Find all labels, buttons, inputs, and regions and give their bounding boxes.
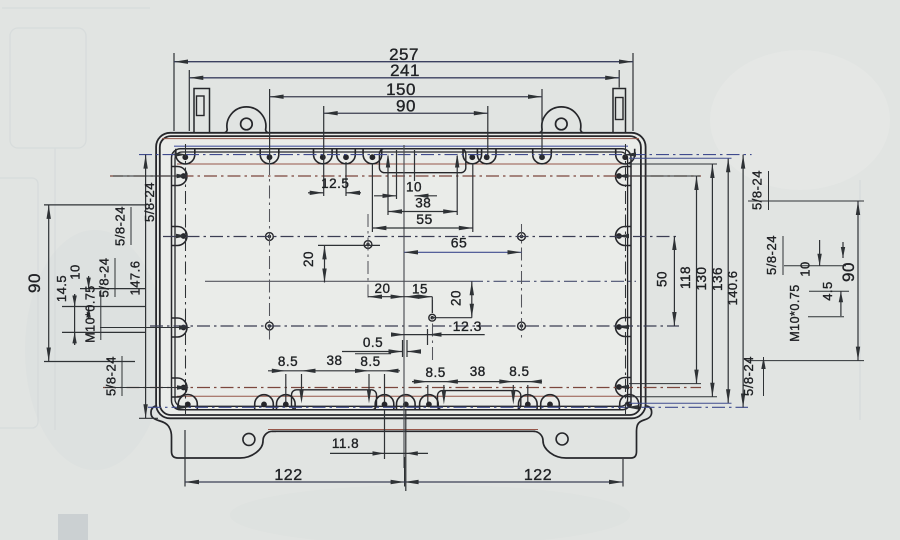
top row boss x486.7 [477, 149, 496, 164]
centerline row y176 [110, 175, 701, 177]
thread label 5/8-24 left 2 [130, 207, 132, 245]
red recess line bottom [177, 395, 626, 397]
scan ghost artifacts left margin [0, 8, 860, 430]
ear 1 hole [241, 118, 253, 130]
centerline column left bosses [185, 144, 187, 414]
dimension 4.5 right [842, 242, 844, 258]
dimension 90 right [857, 201, 859, 361]
svg-text:241: 241 [390, 61, 420, 80]
dimension 147.6 [145, 155, 147, 419]
svg-text:12.3: 12.3 [453, 318, 482, 334]
right wall boss y387 [616, 378, 632, 397]
dimension 65 [404, 251, 522, 253]
bottom right pad [438, 391, 521, 410]
dimension 12.5 [345, 162, 347, 196]
top row boss corner TR [616, 149, 635, 164]
interior hole (269.4,326) [266, 322, 274, 330]
interior hole (269.4,236.5) [266, 233, 274, 241]
interior hole (521.5,326) [518, 322, 526, 330]
bottom row boss x264 [255, 395, 274, 410]
left foot hole [243, 433, 255, 445]
paper mottling [25, 230, 165, 470]
svg-text:15: 15 [412, 282, 428, 297]
top row boss x269.5 [260, 149, 279, 164]
thread label 5/8-24 left 3 [114, 258, 116, 297]
svg-text:4.5: 4.5 [820, 281, 835, 301]
dimension 50 right [673, 236, 675, 326]
dimension 122 right [405, 481, 623, 483]
dimension 14.5 [74, 294, 76, 345]
bottom row boss x384.5 [375, 395, 394, 410]
svg-text:12.5: 12.5 [321, 176, 349, 191]
leader arrow right boss y387 [617, 385, 629, 389]
interior hole (521.5,236.5) [518, 233, 526, 241]
left mounting foot [151, 406, 276, 458]
column through hole x269.5 [269, 162, 271, 340]
svg-text:20: 20 [449, 290, 464, 306]
svg-text:147.6: 147.6 [128, 260, 143, 295]
svg-text:5/8-24: 5/8-24 [750, 170, 765, 210]
right wall boss y327 [616, 318, 632, 337]
center axis column [403, 145, 405, 468]
right wall boss y236 [616, 227, 632, 246]
svg-text:118: 118 [678, 266, 693, 289]
bottom row boss x285.8 [277, 395, 296, 410]
svg-text:5/8-24: 5/8-24 [764, 235, 779, 275]
ear 2 hole [556, 118, 568, 130]
top row boss x472.3 [463, 149, 482, 164]
left wall boss y387.5 [172, 378, 188, 397]
dimension 118 right [696, 176, 698, 384]
top center pad [379, 149, 465, 173]
interior hole (368,244.5) [364, 241, 372, 249]
leader arrow corner TR [624, 152, 636, 156]
bottom row boss x405.8 [397, 395, 416, 410]
svg-text:M10*0.75: M10*0.75 [788, 284, 802, 342]
thread label 5/8-24 right 1 [768, 171, 770, 210]
dimension 11.8 [384, 410, 386, 459]
dimension 257 [173, 53, 175, 131]
svg-text:10: 10 [406, 180, 422, 195]
enclosure body fill [156, 133, 645, 419]
top right tab [613, 89, 626, 133]
dimension 12.3 [427, 329, 429, 345]
column through hole x432.5 [432, 300, 434, 360]
dimension 20-15 chain [368, 296, 432, 298]
red fringe line below top outer edge [162, 138, 639, 140]
svg-text:122: 122 [274, 467, 302, 484]
svg-text:8.5: 8.5 [360, 354, 380, 369]
svg-text:8.5: 8.5 [425, 365, 445, 380]
centerline row y281 [205, 280, 470, 282]
centerline row y326 [150, 325, 679, 327]
bottom row boss x428.9 [420, 395, 439, 410]
dimension 55 [371, 163, 373, 232]
centerline row y387.5 [103, 387, 701, 389]
left wall boss y327.5 [172, 318, 188, 337]
right wall boss y176 [616, 167, 632, 186]
svg-text:0.5: 0.5 [363, 335, 383, 350]
bottom edge between feet [272, 430, 535, 432]
centerline column right bosses [625, 144, 627, 414]
centerline row y236 [163, 236, 679, 238]
leader arrow left boss y236 [176, 234, 188, 238]
right mounting foot [534, 406, 652, 458]
red recess line top [177, 163, 626, 165]
dimension 130 right [711, 164, 713, 397]
centerline row y407.3 [148, 406, 748, 408]
thread label M10x0.75 right [808, 316, 844, 318]
svg-text:11.8: 11.8 [332, 436, 359, 451]
thread label M10x0.75 left [100, 290, 102, 340]
top row boss x346 [337, 149, 356, 164]
thread label 5/8-24 left 4 [121, 356, 123, 396]
dimension 150 [269, 89, 271, 162]
enclosure outer contour line 2 [160, 136, 641, 415]
svg-text:38: 38 [415, 196, 431, 211]
enclosure outer contour line 1 [156, 133, 645, 419]
dimension 20 vertical b [471, 281, 473, 317]
top row boss x322.8 [314, 149, 333, 164]
svg-text:10: 10 [798, 261, 813, 276]
thread label 5/8-24 right 3 [763, 357, 765, 396]
svg-text:38: 38 [326, 353, 342, 368]
dimension 241 [188, 70, 190, 131]
svg-text:136: 136 [710, 267, 725, 291]
dimension 140.6 right [742, 155, 744, 408]
inner wall outer line [172, 149, 632, 410]
svg-text:38: 38 [470, 364, 486, 379]
dimension 136 right [727, 158, 729, 403]
dimension 0.5 [342, 351, 403, 353]
svg-text:8.5: 8.5 [509, 364, 529, 379]
svg-text:5/8-24: 5/8-24 [142, 182, 157, 222]
svg-text:20: 20 [301, 251, 316, 267]
top right tab slot [616, 98, 624, 120]
dimension 10 right [819, 240, 821, 266]
dimension chain 8.5-38-8.5 right [412, 381, 542, 383]
right foot hole [556, 433, 568, 445]
dimension chain 8.5-38-8.5 left [268, 370, 400, 372]
leader arrow corner BR [626, 405, 638, 409]
top row boss x542 [533, 149, 552, 164]
interior hole (432.2,317.7) [429, 314, 436, 321]
bottom row boss x527.8 [519, 395, 538, 410]
left wall boss y236 [172, 227, 188, 246]
svg-text:M10*0.75: M10*0.75 [84, 285, 98, 343]
top left tab slot [197, 96, 205, 116]
inner wall inner line [175, 152, 628, 406]
dimension 90 top [323, 106, 325, 196]
bottom row boss corner BR [620, 395, 639, 410]
svg-text:20: 20 [374, 281, 390, 296]
dimension 20 vertical a [324, 245, 326, 282]
svg-text:55: 55 [416, 211, 433, 227]
svg-text:50: 50 [655, 271, 670, 287]
left wall boss y176 [172, 167, 188, 186]
svg-text:10: 10 [68, 264, 83, 279]
bottom row boss corner BL [178, 395, 197, 410]
column through hole x368 [367, 214, 369, 300]
thread label 5/8-24 right 2 [782, 236, 784, 275]
svg-text:90: 90 [396, 97, 416, 116]
bottom row boss x550 [541, 395, 560, 410]
svg-text:90: 90 [839, 262, 858, 282]
top left mounting ear [224, 107, 268, 133]
top left tab [194, 89, 210, 133]
svg-text:5/8-24: 5/8-24 [104, 356, 119, 396]
bottom left pad [292, 390, 377, 410]
svg-text:90: 90 [25, 273, 44, 293]
top row boss x372.4 [363, 149, 382, 164]
column through hole x521.5 [521, 224, 523, 340]
svg-text:140.6: 140.6 [725, 270, 740, 305]
top row boss corner TL [176, 149, 195, 164]
svg-text:5/8-24: 5/8-24 [741, 356, 756, 396]
dimension 90 left [48, 205, 50, 362]
svg-text:5/8-24: 5/8-24 [113, 206, 128, 246]
svg-text:65: 65 [451, 235, 468, 251]
leader arrow corner BL [177, 405, 189, 409]
dimension 10 left [88, 276, 90, 289]
blue gasket line top [174, 145, 628, 147]
svg-text:130: 130 [694, 266, 709, 290]
dimension 10 top [396, 150, 398, 199]
svg-text:122: 122 [524, 467, 552, 484]
dimension 38 top [387, 156, 389, 215]
centerline row y154.6 [139, 154, 752, 156]
svg-text:8.5: 8.5 [278, 354, 298, 369]
top right mounting ear [539, 107, 583, 133]
dimension 122 left [184, 430, 186, 487]
svg-text:5/8-24: 5/8-24 [97, 258, 112, 298]
